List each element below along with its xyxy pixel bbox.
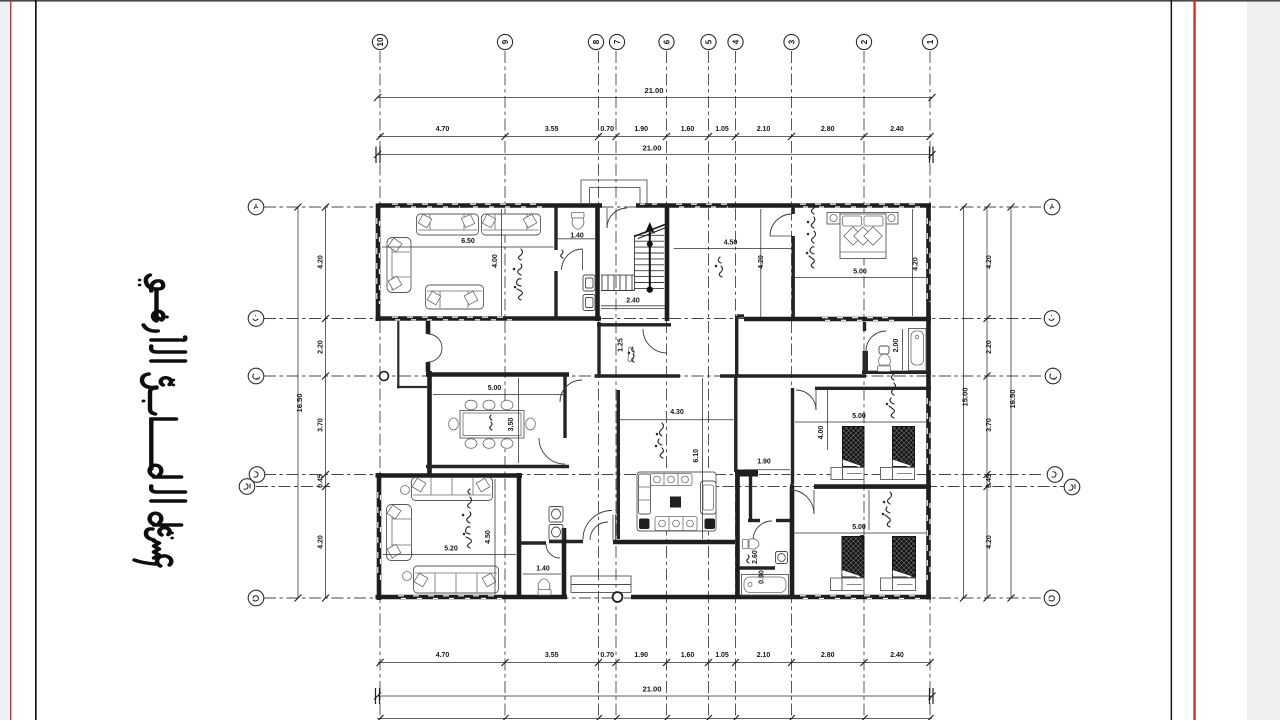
svg-text:2.10: 2.10 (757, 126, 771, 133)
grid line 4 (735, 51, 737, 716)
window bottom wall BR3 a (800, 596, 856, 599)
majlis nisa sofa bottom (414, 566, 499, 593)
bath 2.00 tub (909, 329, 927, 371)
svg-text:1.25: 1.25 (618, 338, 625, 352)
left edge round column at row C (380, 372, 389, 381)
svg-text:1: 1 (926, 39, 935, 44)
bubble row A right (1044, 199, 1060, 215)
ROOM DIMENSION LINES AND LABELS (382, 209, 926, 594)
bubble row C left (248, 368, 264, 384)
svg-text:2.10: 2.10 (757, 652, 771, 659)
bubble row C right (1045, 368, 1061, 384)
family room bottom wall (613, 540, 735, 545)
svg-text:0.70: 0.70 (600, 126, 614, 133)
grid line 10 (379, 51, 381, 716)
right total dimension line 15.00 (963, 207, 965, 598)
label majlis nisa (462, 489, 471, 548)
majlis rijal sofa left vertical (387, 238, 411, 293)
svg-text:4.20: 4.20 (986, 535, 993, 549)
svg-text:4.00: 4.00 (818, 426, 825, 440)
majlis nisa sofa top (412, 478, 493, 501)
BR3 left wall (790, 487, 795, 598)
window left wall nisa (378, 492, 381, 580)
svg-text:3.55: 3.55 (545, 126, 559, 133)
svg-text:5.00: 5.00 (852, 524, 866, 531)
svg-text:1.40: 1.40 (570, 233, 584, 240)
row line F (264, 597, 1044, 599)
ROW BUBBLES RIGHT (1044, 199, 1080, 606)
svg-text:1.05: 1.05 (715, 126, 729, 133)
porch round column (613, 592, 623, 602)
window top wall hall (676, 204, 728, 207)
row C wall left segment (laundry/family top) (595, 374, 681, 377)
BR1 left wall (792, 204, 795, 215)
bubble row B right (1044, 311, 1060, 327)
master bed BR1 (827, 213, 898, 259)
svg-text:9: 9 (501, 39, 510, 44)
window bottom wall nisa (398, 596, 502, 599)
ARABIC ROOM LABELS (squiggle approximations) (462, 208, 895, 563)
chain tick marks right (960, 204, 1015, 602)
left pale margin strip (0, 0, 10, 720)
letter in bubble B left (253, 316, 258, 321)
top chain dimension line (378, 136, 932, 138)
grid line 2 (863, 51, 865, 716)
bottom wall left part (376, 595, 568, 600)
DIMENSIONS TOP (377, 86, 932, 155)
svg-text:2: 2 (860, 39, 869, 44)
svg-text:5.00: 5.00 (488, 385, 502, 392)
label BR2 (886, 374, 895, 418)
exterior right wall (926, 204, 931, 600)
label BR1 (806, 208, 815, 268)
svg-text:21.00: 21.00 (642, 144, 661, 153)
stair landing edge double line (601, 305, 665, 307)
svg-text:4.20: 4.20 (913, 257, 920, 271)
dining right wall (563, 376, 566, 438)
STAIRS (601, 222, 666, 293)
dining-lobby door arc (560, 380, 582, 402)
svg-text:2.80: 2.80 (821, 126, 835, 133)
window top wall majlis 1 (392, 204, 460, 207)
left total dimension line 16.50 (297, 207, 299, 598)
row C wall right segment (720, 374, 866, 377)
bubble 4 (728, 34, 743, 49)
WC room left wall (749, 477, 752, 520)
family door jamb double line (612, 515, 614, 541)
left red frame line (10, 0, 11, 720)
right black frame line (1171, 0, 1173, 720)
laundry left wall (597, 322, 600, 377)
letter in bubble E left (244, 484, 250, 489)
svg-text:15.00: 15.00 (961, 387, 970, 406)
BR2 bed 1 (831, 427, 864, 480)
svg-text:4.20: 4.20 (318, 255, 325, 269)
window left wall majlis (377, 218, 380, 304)
svg-text:1.90: 1.90 (757, 459, 771, 466)
bath 2.00 left wall (863, 322, 866, 331)
BR2 top wall (815, 387, 931, 390)
window top wall BR1 a (800, 204, 856, 207)
label WC room (747, 555, 749, 563)
letter in bubble E right (1069, 485, 1075, 491)
bath 2.00 bottom wall (862, 371, 931, 374)
FURNITURE (387, 213, 927, 596)
grid line 7 (615, 51, 617, 716)
letter in bubble C left (253, 374, 260, 379)
DIMENSIONS LEFT (295, 207, 326, 598)
grid line 6 (666, 51, 668, 716)
hall right wall (rows B to C) (735, 316, 738, 377)
bubble 5 (701, 34, 716, 49)
BR1 bottom wall (744, 317, 931, 322)
majlis bath right wall (595, 207, 600, 321)
majlis nisa right wall (517, 473, 522, 599)
entrance porch outer rect (581, 180, 647, 206)
grid line 9 (504, 51, 506, 716)
svg-text:5.00: 5.00 (852, 413, 866, 420)
nisa bath door arc (546, 544, 560, 558)
label hall (715, 257, 722, 277)
PORCH bottom center (380, 372, 632, 602)
letter in bubble D right (1052, 472, 1056, 478)
ROW BUBBLES LEFT (239, 199, 265, 606)
row line D (264, 474, 1044, 476)
svg-text:3.55: 3.55 (545, 652, 559, 659)
stair lower flight treads (601, 275, 635, 290)
chain tick marks left (295, 204, 330, 602)
svg-text:2.40: 2.40 (890, 652, 904, 659)
majlis nisa top wall (376, 473, 523, 478)
svg-text:2.60: 2.60 (752, 550, 759, 564)
svg-text:5.00: 5.00 (853, 269, 867, 276)
ROW BUBBLE LETTERS (244, 204, 1075, 601)
word alif-lam-alif-reh-dad-tatweel-yeh (Alardi) (151, 359, 185, 362)
majlis nisa left exterior wall (377, 473, 382, 600)
exterior left wall top (376, 204, 381, 322)
majlis rijal sofa top-left (417, 214, 479, 235)
TITLE: Ground Floor Plan (Arabic, rotated) (134, 275, 185, 566)
window bottom wall BR3 b (864, 596, 920, 599)
svg-text:2.00: 2.00 (893, 339, 900, 353)
svg-text:6: 6 (663, 39, 672, 44)
label family room (655, 423, 663, 458)
window top wall above stair (640, 203, 664, 205)
bubble row F left (248, 590, 264, 606)
window top wall BR1 b (864, 204, 920, 207)
entrance porch inner rect (590, 188, 641, 206)
letter in bubble B right (1049, 316, 1054, 321)
letter in bubble A left (254, 204, 258, 209)
stair upper flight treads (635, 235, 665, 290)
bubble 3 (784, 34, 799, 49)
svg-text:10: 10 (376, 37, 385, 46)
bubble 8 (588, 34, 603, 49)
WINDOWS (377, 204, 930, 598)
right chain dimension line (986, 207, 988, 598)
bubble row E right (1064, 479, 1080, 495)
bottom chain dimension line (378, 662, 932, 664)
corridor bottom wall (left of family door) (549, 540, 583, 543)
DIMENSIONS BOTTOM (377, 663, 932, 719)
svg-text:1.90: 1.90 (634, 126, 648, 133)
dining left exterior wall (427, 371, 432, 474)
stair direction arrow rail (649, 228, 651, 290)
bottom total dimension line 21.00 (377, 695, 932, 697)
svg-text:1.60: 1.60 (681, 126, 695, 133)
bubble row E left (239, 479, 255, 495)
chain segment labels left (rotated) (318, 255, 325, 549)
letter in bubble C right (1050, 374, 1057, 379)
svg-text:4.50: 4.50 (485, 530, 492, 544)
main entry door arc (607, 208, 627, 228)
svg-text:5.20: 5.20 (444, 546, 458, 553)
window top wall majlis 2 (470, 204, 542, 207)
svg-text:5: 5 (705, 39, 714, 44)
svg-text:1.60: 1.60 (681, 652, 695, 659)
svg-text:2.40: 2.40 (626, 298, 640, 305)
BR2/BR3 dividing wall (790, 484, 794, 489)
nisa side table circles (401, 486, 410, 495)
top border line (0, 0, 1280, 2)
family room left wall (617, 390, 620, 539)
right outer total dimension line 16.50 (1010, 207, 1012, 598)
corridor basin 1 (549, 507, 563, 523)
svg-text:8: 8 (592, 39, 601, 44)
top total dimension line 21.00 (378, 97, 933, 99)
BR2 bed 2 (881, 427, 915, 480)
chain tick marks top (374, 94, 936, 163)
bubble row A left (248, 199, 264, 215)
left recess horizontal wall (397, 386, 427, 388)
top second total 21.00 (377, 154, 932, 156)
letter in bubble D left (254, 472, 258, 478)
svg-text:0.45: 0.45 (318, 474, 325, 488)
row line E (256, 486, 330, 488)
svg-text:0.45: 0.45 (986, 474, 993, 488)
svg-text:3.50: 3.50 (508, 418, 515, 432)
svg-text:2.40: 2.40 (890, 126, 904, 133)
porch step outer (571, 576, 631, 584)
bath 2.00 WC (878, 354, 891, 372)
left chain dimension line (325, 207, 327, 598)
label on dining table (490, 415, 492, 430)
majlis rijal sofa bottom (426, 285, 484, 309)
COLUMN BUBBLES TOP (372, 34, 937, 49)
window right wall BR2 (927, 398, 930, 472)
letter in bubble A right (1050, 204, 1054, 209)
svg-text:2.80: 2.80 (821, 652, 835, 659)
svg-text:4.00: 4.00 (492, 254, 499, 268)
stair right wall (665, 204, 670, 322)
nisa bath top wall (519, 541, 546, 544)
svg-text:0.90: 0.90 (759, 570, 766, 584)
grid line 8 (598, 51, 600, 716)
bubble row B left (248, 311, 264, 327)
bubble 7 (609, 34, 624, 49)
BR3 door arc (790, 490, 814, 514)
svg-text:6.10: 6.10 (693, 449, 700, 463)
svg-text:3.70: 3.70 (986, 418, 993, 432)
nisa bath WC (538, 579, 551, 595)
WC room toilet (743, 539, 760, 549)
bubble 10 (372, 34, 387, 49)
stair break line diagonal (634, 225, 665, 237)
BR3 bed 1 (831, 537, 865, 591)
svg-text:16.50: 16.50 (295, 393, 304, 412)
dining bottom wall (426, 465, 569, 468)
bubble 1 (922, 34, 937, 49)
chain tick marks bottom (374, 659, 936, 720)
row line C (264, 375, 1044, 377)
bath 2.00 door arc (866, 331, 886, 351)
label laundry (628, 347, 634, 362)
svg-text:2.20: 2.20 (318, 340, 325, 354)
bubble 2 (856, 34, 871, 49)
right red frame line (1193, 0, 1195, 720)
porch step inner (571, 584, 631, 592)
BR3 bed 2 (881, 537, 916, 591)
majlis bath door arc (562, 249, 583, 270)
chain segment labels top (436, 126, 904, 133)
left recess vertical wall (397, 321, 399, 388)
svg-text:1.05: 1.05 (715, 652, 729, 659)
WC room basin (776, 552, 788, 564)
WC room top wall segments (748, 519, 760, 522)
WC room door arc (753, 521, 772, 540)
row line E right (700, 486, 1064, 488)
svg-text:3: 3 (788, 39, 797, 44)
laundry door arc (643, 329, 667, 353)
laundry sink (628, 347, 634, 362)
svg-text:4.70: 4.70 (436, 652, 450, 659)
corridor basin 2 (549, 525, 563, 541)
svg-text:3.70: 3.70 (318, 418, 325, 432)
svg-text:7: 7 (613, 39, 622, 44)
dining table (449, 400, 536, 448)
label BR3 (882, 492, 891, 527)
bottom edge chain line (377, 718, 932, 720)
letter in bubble F right (1049, 596, 1054, 601)
family seating group (637, 472, 716, 531)
window BR1 bottom wall threshold (822, 318, 895, 321)
DOORS (428, 208, 886, 558)
family room porch door arc (583, 511, 612, 540)
hall to BR corridor gap jamb (737, 314, 744, 317)
majlis rijal sofa top-right (482, 214, 541, 235)
DIMENSIONS RIGHT (961, 207, 1018, 598)
svg-text:1.90: 1.90 (634, 652, 648, 659)
word meem-seen-qaf-taa (Musqat) (134, 556, 171, 566)
chain segment labels bottom (436, 652, 904, 659)
WC/tub partition wall (737, 566, 775, 569)
tub room bathtub (742, 575, 789, 596)
window right wall BR3 (927, 500, 930, 580)
majlis rijal right wall (554, 207, 557, 250)
majlis bath shower tray (583, 275, 595, 291)
hall to BR1 door arc (770, 214, 792, 236)
BR2 left wall (791, 388, 794, 484)
svg-text:21.00: 21.00 (644, 86, 663, 95)
majlis bath WC (572, 213, 585, 230)
svg-text:21.00: 21.00 (642, 685, 661, 694)
svg-text:4.70: 4.70 (436, 126, 450, 133)
bath 2.00 sink (879, 346, 889, 354)
left black frame line (35, 0, 37, 720)
WC block left exterior wall (735, 477, 740, 599)
svg-text:6.50: 6.50 (461, 238, 475, 245)
side entrance double door arcs (428, 334, 442, 348)
svg-text:4.20: 4.20 (318, 535, 325, 549)
majlis bath sink (583, 295, 595, 311)
svg-text:4.00: 4.00 (860, 535, 867, 549)
svg-text:2.20: 2.20 (986, 340, 993, 354)
bottom wall right part (631, 595, 931, 600)
row line A (264, 206, 1044, 208)
bubble row F right (1044, 590, 1060, 606)
svg-text:4.20: 4.20 (986, 255, 993, 269)
svg-text:4.20: 4.20 (758, 255, 765, 269)
exterior top wall (378, 203, 603, 208)
window majlis rijal bottom wall (392, 317, 512, 320)
letter in bubble F left (253, 596, 258, 601)
majlis nisa sofa left (387, 505, 412, 561)
bubble 9 (497, 34, 512, 49)
chain segment labels right (rotated) (986, 255, 993, 549)
majlis bath partition below WC (558, 238, 595, 240)
family room right wall (734, 377, 737, 472)
bubble row D left (249, 467, 265, 483)
WALLS (376, 180, 932, 600)
majlis rijal bottom wall (376, 316, 602, 321)
corridor 1.90 wall stub (735, 470, 758, 477)
svg-text:4: 4 (732, 39, 741, 44)
right gray margin strip (1247, 0, 1280, 720)
bubble row D right (1047, 467, 1063, 483)
nisa bath right wall (562, 528, 567, 599)
svg-text:1.40: 1.40 (536, 566, 550, 573)
grid line 3 (791, 51, 793, 716)
grid line 5 (708, 51, 710, 716)
grid line 1 (929, 51, 931, 716)
svg-text:4.50: 4.50 (724, 240, 738, 247)
corridor wash door arc (590, 522, 608, 540)
label near majlis bath door (561, 250, 563, 258)
BR2 door arc (796, 390, 816, 410)
svg-text:4.30: 4.30 (670, 409, 684, 416)
wall below stair (597, 323, 671, 326)
label majlis rijal (513, 249, 522, 300)
dining top wall (426, 372, 569, 377)
row line B (264, 318, 1044, 320)
word alif-lam-taa-tatweel-alif-beh-qaf (Attabiq) (151, 499, 185, 502)
svg-text:0.70: 0.70 (600, 652, 614, 659)
window right wall BR1 (927, 218, 930, 302)
side entrance wall with door jambs (426, 321, 431, 334)
dining door arc (bottom) (539, 438, 565, 464)
svg-text:16.50: 16.50 (1008, 389, 1017, 408)
bubble 6 (659, 34, 674, 49)
